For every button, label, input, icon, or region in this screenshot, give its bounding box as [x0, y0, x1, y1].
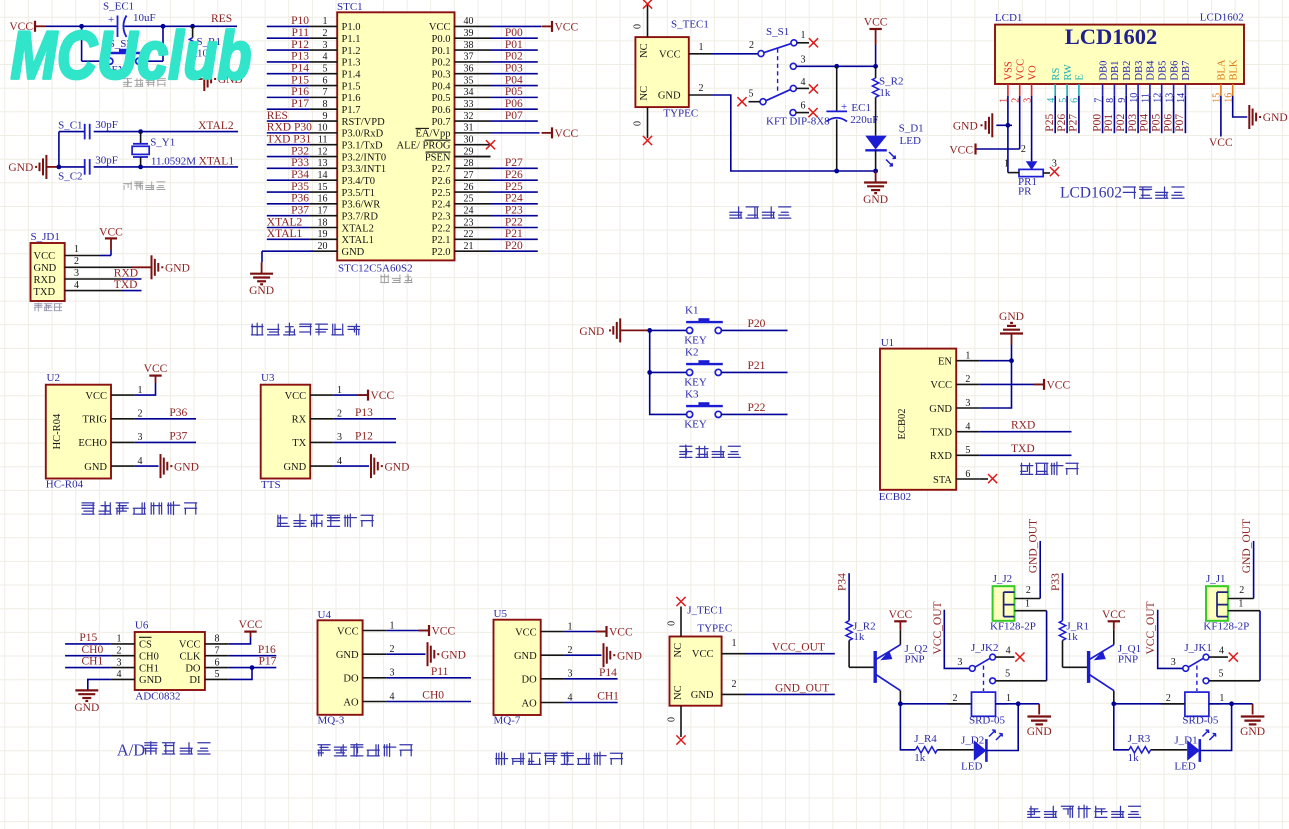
pin 5 no connect (S_S1): [749, 101, 761, 103]
svg-text:1: 1: [1006, 693, 1011, 704]
svg-text:14: 14: [318, 170, 328, 181]
power VCC pin 40: [491, 25, 542, 27]
svg-text:2: 2: [568, 645, 573, 656]
power VCC pin 31: [491, 132, 540, 134]
wire pot pin1 to VSS column: [1008, 172, 1019, 174]
wire resistor to led: [937, 749, 974, 751]
svg-text:GND: GND: [579, 326, 604, 338]
svg-text:P10: P10: [291, 15, 309, 27]
svg-text:2: 2: [732, 679, 737, 690]
svg-text:GND_OUT: GND_OUT: [1028, 519, 1040, 573]
svg-text:GND: GND: [1240, 726, 1265, 738]
svg-text:2: 2: [1239, 585, 1244, 596]
svg-text:PNP: PNP: [1118, 654, 1138, 666]
svg-text:30pF: 30pF: [95, 154, 118, 166]
mcu STC1 active-low overlines: [416, 127, 430, 129]
terminal block J_J2: [990, 573, 1036, 633]
svg-text:P20: P20: [505, 240, 523, 252]
svg-text:3: 3: [390, 668, 395, 679]
svg-text:LED: LED: [961, 760, 982, 772]
svg-text:20: 20: [318, 241, 328, 252]
svg-text:P33: P33: [1050, 573, 1062, 591]
svg-text:P00: P00: [1091, 114, 1103, 132]
svg-text:33: 33: [464, 99, 474, 110]
wire S_R1 to GND: [192, 58, 194, 79]
power port VCC (lcd): [949, 144, 975, 157]
svg-text:P07: P07: [505, 110, 523, 122]
svg-text:1: 1: [117, 634, 122, 645]
svg-text:1: 1: [1004, 159, 1009, 170]
svg-text:P36: P36: [169, 407, 187, 419]
svg-text:35: 35: [464, 75, 474, 86]
svg-text:AO: AO: [522, 698, 538, 709]
svg-text:P21: P21: [505, 228, 523, 240]
pin 0 top (S_TEC1): [647, 5, 649, 37]
svg-text:GND: GND: [283, 462, 306, 473]
svg-text:ECB02: ECB02: [879, 491, 911, 503]
svg-text:CH1: CH1: [597, 691, 619, 703]
svg-text:J_J1: J_J1: [1206, 573, 1226, 585]
svg-text:STC12C5A60S2: STC12C5A60S2: [338, 263, 413, 275]
svg-text:2: 2: [117, 646, 122, 657]
svg-text:CH0: CH0: [82, 644, 104, 656]
resistor J_R3: [1128, 733, 1151, 764]
svg-text:VCC: VCC: [1102, 609, 1126, 621]
ground (adc): [86, 689, 88, 692]
svg-text:6: 6: [215, 657, 220, 668]
svg-text:12: 12: [318, 146, 328, 157]
svg-text:PNP: PNP: [905, 654, 925, 666]
svg-text:1: 1: [390, 620, 395, 631]
svg-text:VCC: VCC: [285, 391, 307, 402]
svg-text:KF128-2P: KF128-2P: [990, 620, 1036, 632]
wire DO to P14: [564, 678, 617, 680]
power port VCC (bluetooth): [1034, 383, 1045, 385]
svg-text:GND: GND: [84, 462, 107, 473]
svg-text:25: 25: [464, 194, 474, 205]
resistor S_R2: [872, 66, 903, 99]
svg-text:KEY: KEY: [684, 377, 707, 389]
svg-text:GND: GND: [863, 194, 888, 206]
svg-text:11.0592M: 11.0592M: [151, 156, 196, 168]
svg-text:S_JD1: S_JD1: [31, 231, 60, 243]
wire XTAL1 net: [59, 166, 85, 168]
svg-text:GND: GND: [658, 91, 681, 102]
svg-text:TRIG: TRIG: [83, 415, 108, 426]
lcd pin stubs: [1007, 84, 1009, 96]
svg-text:STC1: STC1: [337, 1, 363, 13]
junction: [647, 370, 652, 375]
power port VCC (J_Q2): [899, 630, 901, 645]
svg-text:4: 4: [568, 692, 573, 703]
junction: [138, 129, 143, 134]
svg-text:40: 40: [464, 16, 474, 27]
wire GND pin to EN node: [980, 361, 1012, 408]
svg-text:LCD1602: LCD1602: [1200, 11, 1244, 23]
wire down to led branch: [1114, 704, 1129, 750]
svg-text:GND: GND: [691, 690, 714, 701]
wire VCC_OUT to contact 3: [944, 610, 969, 669]
power port VCC (U5): [596, 631, 607, 633]
junction: [161, 24, 166, 29]
svg-text:P26: P26: [505, 169, 523, 181]
svg-text:17: 17: [318, 205, 328, 216]
svg-text:P13: P13: [291, 51, 309, 63]
svg-text:NC: NC: [673, 685, 684, 700]
svg-text:P03: P03: [1127, 114, 1139, 132]
svg-text:VCC: VCC: [889, 609, 913, 621]
svg-text:J_R4: J_R4: [914, 733, 937, 745]
svg-text:27: 27: [464, 170, 474, 181]
svg-text:S_R2: S_R2: [879, 76, 903, 88]
svg-text:5: 5: [215, 669, 220, 680]
svg-text:P0.4: P0.4: [432, 81, 452, 92]
svg-text:2: 2: [138, 409, 143, 420]
wire collector down: [1113, 691, 1115, 704]
resistor J_R2: [846, 620, 876, 643]
ground (U2): [160, 454, 162, 478]
caption 蓝牙模块: [1021, 463, 1033, 474]
wire VCC pin: [980, 383, 1044, 385]
svg-text:P15: P15: [291, 74, 309, 86]
svg-text:P35: P35: [291, 181, 309, 193]
capacitor S_EC1: [103, 1, 156, 38]
junction: [190, 24, 195, 29]
wire U5 GND: [564, 654, 601, 656]
svg-text:P2.2: P2.2: [432, 223, 451, 234]
svg-text:P22: P22: [505, 216, 523, 228]
ground (download): [151, 255, 153, 279]
svg-text:5: 5: [749, 89, 754, 100]
wire bottom bus to gnd: [837, 170, 876, 172]
svg-text:MQ-3: MQ-3: [318, 715, 345, 727]
svg-text:24: 24: [464, 205, 474, 216]
caption 一氧化碳检测模块: [496, 752, 508, 765]
svg-text:HC-R04: HC-R04: [46, 479, 84, 491]
svg-text:P01: P01: [1103, 114, 1115, 132]
svg-text:GND: GND: [514, 651, 537, 662]
svg-text:ECB02: ECB02: [897, 409, 908, 440]
svg-text:1: 1: [965, 351, 970, 362]
svg-text:1: 1: [732, 638, 737, 649]
svg-text:TX: TX: [292, 438, 306, 449]
svg-text:2: 2: [965, 374, 970, 385]
wire VCC col: [1019, 96, 1021, 149]
junction: [138, 165, 143, 170]
relay coil SRD-05 (J_JK1): [1161, 692, 1225, 726]
svg-text:1k: 1k: [853, 631, 865, 643]
svg-text:ECHO: ECHO: [78, 438, 107, 449]
svg-text:15: 15: [318, 182, 328, 193]
svg-text:J_JK2: J_JK2: [971, 642, 999, 654]
svg-text:K1: K1: [685, 305, 698, 317]
svg-text:RXD: RXD: [34, 275, 57, 286]
svg-text:P2.7: P2.7: [432, 164, 451, 175]
wire to relay coil: [900, 703, 971, 705]
svg-text:2: 2: [74, 256, 79, 267]
svg-text:32: 32: [464, 111, 474, 122]
svg-text:30: 30: [464, 135, 474, 146]
svg-text:J_TEC1: J_TEC1: [687, 605, 723, 617]
wire VSS to gnd and pot pin1: [1007, 96, 1009, 173]
wire resistor to led: [1151, 749, 1188, 751]
svg-text:1k: 1k: [1067, 631, 1079, 643]
resistor S_R1: [189, 26, 221, 59]
ground (crystal): [8, 155, 59, 179]
svg-text:1: 1: [323, 16, 328, 27]
svg-text:VCC: VCC: [99, 226, 123, 238]
svg-text:4: 4: [138, 456, 143, 467]
svg-text:P02: P02: [1115, 114, 1127, 132]
key K3: [687, 411, 693, 417]
svg-text:6: 6: [801, 101, 806, 112]
svg-text:DO: DO: [343, 674, 359, 685]
wire AO to CH1: [564, 702, 617, 704]
junction: [1006, 123, 1011, 128]
key K2: [687, 369, 693, 375]
caption 按键电路: [680, 445, 692, 458]
svg-text:J_D1: J_D1: [1174, 734, 1197, 746]
svg-text:RXD: RXD: [114, 267, 138, 279]
svg-text:DO: DO: [522, 675, 538, 686]
svg-text:S_D1: S_D1: [899, 123, 924, 135]
svg-text:GND: GND: [1263, 112, 1288, 124]
wire coil pin1: [1209, 703, 1253, 705]
svg-text:DB1: DB1: [1110, 61, 1121, 81]
svg-text:VCC: VCC: [371, 390, 395, 402]
wire U2 GND: [135, 465, 159, 467]
logo MCUclub: [11, 18, 252, 94]
adc U6 body: [135, 620, 205, 691]
svg-text:DO: DO: [185, 663, 201, 674]
svg-text:P27: P27: [505, 157, 523, 169]
svg-text:8: 8: [215, 634, 220, 645]
wire DO to P17: [229, 667, 276, 669]
ground (power circuit): [875, 171, 877, 183]
caption 超声波测距模块: [82, 503, 94, 514]
svg-text:P04: P04: [1139, 114, 1151, 132]
svg-text:GND: GND: [953, 121, 978, 133]
svg-text:RXD: RXD: [930, 451, 953, 462]
svg-text:29: 29: [464, 146, 474, 157]
wire VCC_OUT to contact 3: [1158, 610, 1183, 669]
wire RX to P13: [334, 418, 396, 420]
svg-text:LCD1602: LCD1602: [1065, 24, 1158, 49]
svg-text:P3.2/INT0: P3.2/INT0: [342, 152, 387, 163]
wire TX to P12: [334, 441, 396, 443]
svg-text:P25: P25: [505, 181, 523, 193]
pin STA no connect: [980, 478, 988, 480]
pin 0 bottom (J_TEC1): [680, 706, 682, 737]
svg-text:P3.6/WR: P3.6/WR: [342, 200, 381, 211]
svg-text:VCC: VCC: [555, 21, 579, 33]
svg-text:S_EC1: S_EC1: [103, 1, 134, 13]
svg-text:KEY: KEY: [684, 419, 707, 431]
svg-text:P16: P16: [291, 86, 309, 98]
key K1: [687, 327, 693, 333]
svg-text:XTAL2: XTAL2: [198, 120, 234, 132]
svg-text:GND: GND: [34, 263, 57, 274]
svg-text:4: 4: [801, 77, 806, 88]
lcd LCD1 body: [995, 11, 1244, 84]
svg-text:P3.3/INT1: P3.3/INT1: [342, 164, 387, 175]
ground (lcd left): [991, 113, 993, 137]
svg-text:J_R3: J_R3: [1128, 733, 1151, 745]
svg-text:P2.5: P2.5: [432, 188, 451, 199]
transistor J_Q2: [875, 643, 928, 691]
svg-text:VCC: VCC: [85, 391, 107, 402]
svg-text:P27: P27: [1068, 114, 1080, 132]
svg-text:3: 3: [568, 669, 573, 680]
power port VCC (U4): [419, 630, 430, 632]
power port VCC (download): [110, 250, 112, 256]
ground (U3): [370, 454, 372, 478]
svg-text:VCC: VCC: [429, 22, 451, 33]
svg-text:LED: LED: [1174, 760, 1195, 772]
svg-text:18: 18: [318, 217, 328, 228]
relay coil SRD-05 (J_JK2): [948, 692, 1012, 726]
svg-text:ADC0832: ADC0832: [135, 691, 180, 703]
svg-text:P11: P11: [431, 666, 449, 678]
svg-text:28: 28: [464, 158, 474, 169]
svg-text:P2.0: P2.0: [432, 247, 451, 258]
svg-text:S_C1: S_C1: [58, 120, 82, 132]
svg-text:3: 3: [965, 398, 970, 409]
svg-text:6: 6: [323, 75, 328, 86]
svg-text:2: 2: [337, 409, 342, 420]
svg-text:16: 16: [318, 194, 328, 205]
svg-text:XTAL1: XTAL1: [267, 228, 303, 240]
svg-text:P06: P06: [505, 98, 523, 110]
junction: [834, 169, 839, 174]
svg-text:P02: P02: [505, 51, 523, 63]
svg-text:P22: P22: [748, 402, 766, 414]
svg-text:P1.4: P1.4: [342, 70, 362, 81]
ground (mcu): [261, 262, 263, 274]
wire contact 5: [996, 680, 1047, 682]
svg-text:S_S1: S_S1: [766, 26, 789, 38]
svg-text:23: 23: [464, 217, 474, 228]
relay switch J_JK2: [957, 642, 1010, 691]
svg-text:P25: P25: [1044, 114, 1056, 132]
wire S_EC1 to RES: [125, 25, 238, 27]
wire led up to junction: [1200, 704, 1232, 751]
pin 29 stub: [455, 156, 491, 158]
wire XTAL2 net: [59, 131, 85, 133]
svg-text:GND: GND: [385, 461, 410, 473]
svg-text:6: 6: [965, 469, 970, 480]
svg-text:GND: GND: [999, 311, 1024, 323]
svg-text:GND: GND: [174, 461, 199, 473]
ground (U4): [427, 642, 429, 666]
wire U6 VCC: [229, 637, 251, 644]
wire led up to junction: [986, 704, 1018, 751]
svg-text:TXD: TXD: [34, 287, 56, 298]
svg-text:TXD P31: TXD P31: [267, 134, 312, 146]
junction: [873, 64, 878, 69]
svg-text:LCD1602: LCD1602: [1060, 185, 1122, 202]
svg-text:4: 4: [323, 52, 328, 63]
svg-text:37: 37: [464, 52, 474, 63]
svg-text:36: 36: [464, 64, 474, 75]
svg-text:P2.6: P2.6: [432, 176, 451, 187]
svg-text:GND: GND: [441, 649, 466, 661]
svg-text:5: 5: [1005, 669, 1010, 680]
wire DI to DO: [229, 668, 252, 680]
resistor J_R4: [914, 733, 937, 764]
svg-text:VCC: VCC: [1209, 137, 1233, 149]
svg-text:1: 1: [699, 42, 704, 53]
wire U4 GND: [386, 653, 425, 655]
svg-text:P2.1: P2.1: [432, 235, 451, 246]
led J_D2: [961, 730, 1002, 772]
svg-text:4: 4: [1219, 646, 1224, 657]
svg-text:P1.7: P1.7: [342, 105, 361, 116]
svg-text:P0.0: P0.0: [432, 34, 451, 45]
potentiometer PR1: [1004, 144, 1057, 197]
svg-text:P1.5: P1.5: [342, 81, 361, 92]
svg-text:P15: P15: [79, 632, 97, 644]
junction: [873, 169, 878, 174]
caption 酒精检测模块: [318, 745, 330, 756]
contact 4 no connect: [996, 656, 1015, 658]
wire EN to gnd: [980, 360, 1012, 362]
svg-text:P14: P14: [291, 63, 309, 75]
svg-text:2: 2: [699, 83, 704, 94]
svg-text:4: 4: [74, 280, 79, 291]
svg-text:DB3: DB3: [1134, 61, 1145, 81]
svg-text:CH1: CH1: [82, 656, 104, 668]
svg-text:XTAL1: XTAL1: [342, 235, 374, 246]
svg-text:P3.7/RD: P3.7/RD: [342, 211, 379, 222]
ground (U5): [603, 643, 605, 667]
no connect pin 30: [486, 140, 495, 149]
svg-text:STA: STA: [933, 475, 952, 486]
svg-text:P37: P37: [169, 430, 187, 442]
transistor J_Q1: [1089, 643, 1142, 691]
svg-text:VCC: VCC: [34, 251, 56, 262]
svg-text:P32: P32: [291, 145, 309, 157]
svg-text:3: 3: [801, 55, 806, 66]
svg-text:VCC: VCC: [949, 144, 973, 156]
svg-text:P2.4: P2.4: [432, 200, 452, 211]
svg-text:VCC: VCC: [555, 128, 579, 140]
resistor J_R1: [1059, 620, 1089, 643]
svg-text:TYPEC: TYPEC: [663, 107, 698, 119]
crystal S_Y1: [132, 132, 196, 168]
svg-text:P2.3: P2.3: [432, 211, 451, 222]
svg-text:39: 39: [464, 28, 474, 39]
svg-text:P11: P11: [292, 27, 310, 39]
svg-text:P05: P05: [1151, 114, 1163, 132]
svg-text:1: 1: [1238, 599, 1243, 610]
svg-text:P05: P05: [505, 86, 523, 98]
power port VCC (reset circuit): [9, 21, 46, 33]
svg-text:GND: GND: [929, 404, 952, 415]
svg-text:DB6: DB6: [1169, 61, 1180, 81]
svg-text:P0.2: P0.2: [432, 58, 451, 69]
svg-text:7: 7: [323, 87, 328, 98]
svg-text:RES: RES: [267, 110, 288, 122]
svg-text:ALE/ PROG: ALE/ PROG: [397, 141, 451, 152]
wire ECHO to P37: [135, 441, 196, 443]
svg-text:KFT DIP-8X8: KFT DIP-8X8: [766, 115, 830, 127]
svg-text:19: 19: [318, 229, 328, 240]
svg-text:P36: P36: [291, 193, 309, 205]
svg-text:VCC: VCC: [930, 380, 952, 391]
svg-text:5: 5: [965, 445, 970, 456]
svg-text:DB2: DB2: [1122, 61, 1133, 81]
